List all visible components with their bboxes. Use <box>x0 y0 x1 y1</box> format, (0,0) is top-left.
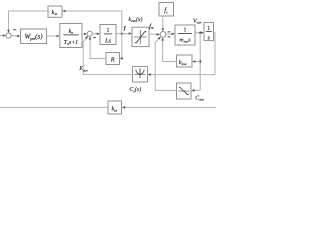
wire into b_lin <box>195 61 201 63</box>
wire input left <box>0 35 3 37</box>
node V_lin junction dot <box>199 32 201 34</box>
svg-text:R: R <box>110 56 115 63</box>
wire node I down to R <box>121 34 123 59</box>
wire S2 to 1/Ls <box>92 33 97 35</box>
svg-text:I: I <box>122 25 126 32</box>
block 1/(m_lin s) <box>175 25 195 45</box>
svg-text:Cлин: Cлин <box>195 96 204 102</box>
wire 1/Ls to saturation block, node I <box>116 33 129 35</box>
summing junction S1 <box>6 33 11 38</box>
summing junction S2 <box>87 31 92 36</box>
wire f_c to S3 <box>162 16 164 29</box>
minus sign at S1 <box>13 29 16 31</box>
block converter k_p/(T_p s+1) <box>60 24 82 48</box>
wire W to converter block <box>47 35 58 37</box>
wire position feedback into C_L(x) <box>150 74 215 76</box>
block k_iz <box>108 101 122 114</box>
svg-text:Vлин: Vлин <box>193 19 202 25</box>
wire into C_lin block <box>194 89 200 91</box>
block W_PT(s) <box>21 29 47 44</box>
summing junction S3 <box>160 32 166 38</box>
wire V_lin branch down <box>199 33 201 91</box>
block C_lin (friction curve) <box>177 83 192 99</box>
svg-text:kтт(x): kтт(x) <box>129 16 143 23</box>
wire R to S2 bottom <box>90 39 106 58</box>
svg-text:1: 1 <box>184 28 187 34</box>
svg-text:1: 1 <box>107 28 110 34</box>
node branch to b_lin <box>199 60 201 62</box>
block f_c <box>159 3 174 17</box>
block C_L(x) <box>133 67 148 83</box>
wire S1 to W <box>11 35 18 37</box>
wire k_v1 to S1 top <box>9 11 49 31</box>
minus sign at S2 <box>93 37 96 39</box>
svg-text:Cл(x): Cл(x) <box>129 86 141 93</box>
minus signs at S3 <box>168 31 171 33</box>
wire 1/(m s) to 1/s, node V_lin <box>195 32 201 34</box>
svg-text:fт: fт <box>149 23 154 30</box>
wire S3 to 1/(m s) <box>166 33 173 35</box>
wire saturation to S3, label f_t <box>149 33 157 35</box>
wire b_lin to S3 bottom <box>163 40 177 62</box>
wire E_lin from C_L(x) to S2 <box>83 38 132 75</box>
svg-text:1: 1 <box>207 26 210 32</box>
block b_lin <box>177 55 193 67</box>
node I junction dot <box>121 33 123 35</box>
wire C_lin output to S3 lower-left <box>155 38 176 90</box>
wire current feedback riser to k_v1 <box>65 11 122 34</box>
block saturation k_tt(x) <box>132 27 149 46</box>
block 1/s <box>204 23 214 41</box>
svg-text:Ls: Ls <box>104 38 111 45</box>
svg-text:Tпs+1: Tпs+1 <box>64 40 78 46</box>
wire k_iz output to left edge <box>0 106 108 108</box>
block 1/(Ls) <box>100 25 116 45</box>
wire 1/s output down right edge <box>214 33 216 75</box>
wire bottom position feedback into k_iz <box>124 106 216 108</box>
block k_v1 <box>48 6 62 17</box>
wire converter to S2 <box>82 33 85 35</box>
block R <box>106 53 120 65</box>
